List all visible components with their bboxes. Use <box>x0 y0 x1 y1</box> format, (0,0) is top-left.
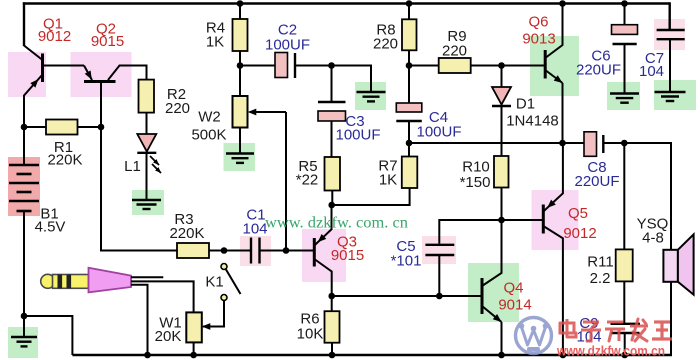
wire C4 bottom lead <box>408 121 410 143</box>
label C4 <box>429 109 448 126</box>
label C9 <box>579 315 598 332</box>
wire C9 bottom lead <box>624 333 626 355</box>
label R6 <box>300 311 319 328</box>
wire C5 bottom lead <box>438 255 440 296</box>
transistor Q1 emitter wire <box>24 75 43 129</box>
wire C2 right lead <box>295 65 332 67</box>
svg-text:Q5: Q5 <box>568 205 588 222</box>
label YSQ value 4-8 <box>642 230 664 247</box>
LED L1 <box>137 134 156 153</box>
label L1 <box>124 158 141 175</box>
label R10 value *150 <box>460 174 491 191</box>
node C5 Q4-base junction <box>436 293 443 300</box>
wire R10 top lead <box>501 143 503 156</box>
highlight box for C7 ground <box>654 80 696 110</box>
label C1 <box>246 207 265 224</box>
wire Q3 collector junction to Q4 base <box>332 295 482 297</box>
highlight box for capacitor C5 <box>422 236 456 264</box>
label Q3 value 9015 <box>331 247 364 264</box>
label R10 <box>462 159 490 176</box>
label C1 value 104 <box>242 221 267 238</box>
resistor R7 <box>402 157 418 189</box>
plug shaft <box>53 275 89 289</box>
battery B1 <box>9 165 39 211</box>
wire D1 cathode lead <box>501 106 503 143</box>
resistor R10 <box>494 156 509 188</box>
watermark green url <box>265 215 408 232</box>
switch K1 bottom contact <box>221 295 227 301</box>
svg-text:R11: R11 <box>587 254 613 271</box>
wire K1 to W1 wiper <box>202 301 224 330</box>
ground C7 <box>655 92 686 101</box>
svg-text:www.dzkfw.com.cn: www.dzkfw.com.cn <box>556 344 665 359</box>
node Q3 collector junction <box>328 293 335 300</box>
capacitor C2 plate+ <box>275 53 288 78</box>
node C6 top on rail <box>621 0 628 7</box>
wire LED cathode lead <box>146 153 148 200</box>
label Q5 <box>568 205 588 222</box>
label C7 <box>645 50 664 67</box>
wire Q6 emitter down <box>562 83 564 143</box>
watermark logo circle-W <box>516 318 552 354</box>
label C9 value 104 <box>576 329 601 346</box>
wire battery bottom lead <box>23 211 25 316</box>
label R9 value 220 <box>442 43 467 60</box>
highlight box for capacitor C1 <box>240 236 271 266</box>
plug shaft band 1 <box>58 275 63 289</box>
svg-text:9014: 9014 <box>498 297 531 314</box>
svg-text:4.5V: 4.5V <box>35 219 66 236</box>
node plug sleeve on rail <box>144 352 151 359</box>
highlight box for LED ground <box>132 190 164 215</box>
label C2 value 100UF <box>265 37 310 54</box>
label W2 <box>198 109 221 126</box>
label D1 <box>516 96 535 113</box>
label R2 value 220 <box>165 100 190 117</box>
label R7 <box>378 158 397 175</box>
wire R3 to C1 <box>209 250 251 252</box>
node R4 top on rail <box>237 0 244 7</box>
wire battery top lead <box>23 127 25 165</box>
svg-text:20K: 20K <box>155 328 182 345</box>
label R5 value *22 <box>296 172 319 189</box>
switch K1 top contact <box>221 264 227 270</box>
wire R4 bottom lead <box>239 51 241 96</box>
transistor Q2 base wire <box>100 82 102 128</box>
wire R9 left lead <box>409 65 439 67</box>
wire top-rail left drop to Q1 collector <box>23 2 25 46</box>
node Q6 collector on rail <box>559 0 566 7</box>
node R8 R9 C4 junction <box>406 62 413 69</box>
wire W2 bottom lead <box>239 128 241 154</box>
node battery top junction <box>21 124 28 131</box>
label R11 value 2.2 <box>590 270 611 287</box>
wire R1 left lead <box>24 126 46 128</box>
svg-text:220: 220 <box>442 43 467 60</box>
label R2 <box>167 86 186 103</box>
svg-text:1K: 1K <box>206 34 224 51</box>
label B1 <box>40 206 58 223</box>
transistor Q2 emitter wire <box>84 66 92 81</box>
resistor R5 <box>325 157 341 191</box>
resistor R6 <box>325 311 340 343</box>
svg-text:4-8: 4-8 <box>642 230 664 247</box>
wire R8 bottom lead <box>408 50 410 65</box>
label D1 value 1N4148 <box>506 113 559 130</box>
svg-text:www. dzkfw. com. cn: www. dzkfw. com. cn <box>265 215 408 232</box>
switch K1 arm <box>226 270 241 295</box>
svg-text:104: 104 <box>639 63 664 80</box>
wire C4 top lead <box>408 66 410 104</box>
label R3 <box>174 211 193 228</box>
watermark text dianzi-kaifa-wang <box>560 319 672 341</box>
label C7 value 104 <box>639 63 664 80</box>
transistor Q5 collector wire <box>543 226 563 355</box>
label C6 value 220UF <box>576 62 621 79</box>
label R8 <box>376 22 395 39</box>
wire Q4 emitter down <box>501 322 503 355</box>
wire R5 bottom lead <box>331 191 333 206</box>
label R5 <box>298 158 317 175</box>
label C4 value 100UF <box>416 124 461 141</box>
svg-text:9015: 9015 <box>331 247 364 264</box>
transistor Q5 base wire <box>502 219 544 221</box>
wire C6 bottom lead <box>624 44 626 94</box>
wire D1 anode lead <box>501 66 503 88</box>
resistor R11 <box>616 249 633 281</box>
wire R1 right lead <box>78 126 102 128</box>
label YSQ <box>637 216 669 233</box>
node R4 W2 C2 junction <box>237 62 244 69</box>
wire R8 top lead <box>408 4 410 20</box>
svg-text:220: 220 <box>373 36 398 53</box>
svg-text:500K: 500K <box>191 127 226 144</box>
highlight box for capacitor C7 <box>654 19 685 50</box>
transistor Q6 bar <box>544 50 547 79</box>
wire C4 junction to Q6 emitter node <box>409 142 563 144</box>
capacitor C7 <box>657 30 685 39</box>
label Q5 value 9012 <box>563 225 596 242</box>
transistor Q4 collector wire <box>482 220 502 286</box>
svg-text:220UF: 220UF <box>574 173 619 190</box>
diode D1 <box>492 87 511 106</box>
transistor Q2 collector wire <box>108 66 147 81</box>
svg-text:100UF: 100UF <box>265 37 310 54</box>
label C5 <box>396 238 415 255</box>
wire R10 bottom lead <box>501 188 503 221</box>
highlight box for Q2 <box>71 52 132 97</box>
wire R6 bottom lead <box>331 343 333 355</box>
node C4 R7 wire junction <box>406 140 413 147</box>
capacitor C4 plate- <box>396 120 422 122</box>
label R9 <box>447 28 466 45</box>
label Q4 <box>503 280 523 297</box>
label K1 <box>205 274 223 291</box>
label Q6 value 9013 <box>522 31 555 48</box>
resistor R3 <box>177 243 209 258</box>
svg-text:104: 104 <box>242 221 267 238</box>
plug sleeve cable to ground rail <box>131 285 148 355</box>
wire R6 top lead <box>331 296 333 311</box>
ground W2 <box>226 154 254 163</box>
wire C7 top lead <box>669 2 671 30</box>
transistor Q5 bar <box>542 205 545 234</box>
highlight box for battery ground <box>8 327 38 358</box>
label Q1 value 9012 <box>38 28 71 45</box>
resistor R1 <box>46 120 78 135</box>
transistor Q4 emitter wire <box>482 306 502 322</box>
label Q2 <box>96 21 116 38</box>
wire C2 left lead <box>240 65 275 67</box>
label C3 value 100UF <box>335 127 380 144</box>
highlight box for Q5 <box>532 190 579 250</box>
potentiometer W2 <box>233 96 248 128</box>
resistor R4 <box>233 19 248 51</box>
transistor Q1 bar <box>41 54 44 83</box>
node W1 on rail <box>190 352 197 359</box>
svg-text:9012: 9012 <box>563 225 596 242</box>
svg-text:*22: *22 <box>296 172 319 189</box>
wire R7 top lead <box>408 143 410 157</box>
transistor Q2 bar <box>84 80 116 83</box>
resistor R9 <box>439 58 471 73</box>
svg-text:220: 220 <box>165 100 190 117</box>
label W1 value 20K <box>155 328 182 345</box>
wire Q3-emitter junction to R7 <box>332 188 410 205</box>
transistor Q6 emitter wire <box>545 70 562 83</box>
wire R9 right lead <box>471 65 546 67</box>
svg-text:220K: 220K <box>169 225 204 242</box>
node R3 C1 K1 junction <box>221 247 228 254</box>
label C6 <box>591 48 610 65</box>
wire R4 top lead <box>239 4 241 20</box>
capacitor C8 plate+ <box>584 132 597 157</box>
svg-text:2.2: 2.2 <box>590 270 611 287</box>
node R9 D1 Q6-base junction <box>498 62 505 69</box>
wire C3 to R5 <box>331 121 333 157</box>
capacitor C4 plate+ <box>396 103 422 112</box>
plug tip <box>41 274 55 288</box>
plug shaft band 2 <box>67 275 72 289</box>
transistor Q3 collector wire <box>314 259 331 296</box>
ground battery <box>11 316 37 346</box>
transistor Q4 bar <box>481 278 484 314</box>
highlight box for mid ground <box>355 82 386 110</box>
wire C5 top lead <box>439 220 501 244</box>
node Q4 emitter on rail <box>498 352 505 359</box>
capacitor C6 plate- <box>613 43 637 45</box>
svg-text:10K: 10K <box>297 326 324 343</box>
node R5 Q3-emitter R7 junction <box>328 202 335 209</box>
wire Q2 base to R3 <box>101 127 177 251</box>
wire C1 to Q3 base <box>260 250 315 252</box>
LED L1 light arrows <box>150 156 161 173</box>
capacitor C8 plate- <box>602 135 604 153</box>
svg-text:1K: 1K <box>379 172 397 189</box>
speaker YSQ horn <box>678 234 694 294</box>
wire C3 top lead <box>331 66 333 103</box>
transistor Q6 collector wire <box>545 4 562 59</box>
node C1 W2-wiper Q3-base junction <box>283 247 290 254</box>
plug tip cable (floating) <box>131 276 163 278</box>
wire ground rail link <box>24 316 72 355</box>
transistor Q1 collector wire <box>24 46 43 61</box>
svg-text:Q4: Q4 <box>503 280 523 297</box>
node C9 on rail <box>621 352 628 359</box>
transistor Q1 base wire <box>43 65 85 67</box>
speaker YSQ body <box>663 250 678 282</box>
label R3 value 220K <box>169 225 204 242</box>
capacitor C1 <box>251 238 260 264</box>
label C8 value 220UF <box>574 173 619 190</box>
wire C6 top lead <box>624 4 626 25</box>
node Q5 collector on rail <box>560 352 567 359</box>
wire R11 bottom lead <box>623 281 625 323</box>
label Q6 <box>528 14 548 31</box>
capacitor C5 <box>425 245 454 255</box>
label W1 <box>159 315 182 332</box>
capacitor C3 plate- <box>318 101 346 103</box>
wire R11 top lead <box>623 143 625 249</box>
highlight box for Q1 <box>8 52 46 97</box>
node R10 Q5-base C5 junction <box>498 217 505 224</box>
wire speaker bottom lead <box>670 282 672 355</box>
node battery ground junction <box>21 313 28 320</box>
highlight box for Q4 <box>468 263 519 322</box>
label R8 value 220 <box>373 36 398 53</box>
bottom ground rail <box>72 354 672 356</box>
svg-text:R10: R10 <box>462 159 490 176</box>
label C8 <box>587 159 606 176</box>
wire C2 to mid ground <box>332 66 372 93</box>
node C2 C3 junction <box>328 62 335 69</box>
svg-text:220UF: 220UF <box>576 62 621 79</box>
wire R2 bottom lead <box>146 113 148 134</box>
label C3 <box>345 113 364 130</box>
label Q1 <box>43 16 63 33</box>
highlight box for Q3 <box>302 229 346 282</box>
svg-text:L1: L1 <box>124 158 141 175</box>
svg-text:9015: 9015 <box>91 33 124 50</box>
label C5 value *101 <box>391 253 422 270</box>
ground mid <box>357 92 386 101</box>
label B1 value 4.5V <box>35 219 66 236</box>
svg-text:9012: 9012 <box>38 28 71 45</box>
svg-text:100UF: 100UF <box>416 124 461 141</box>
transistor Q5 emitter wire <box>543 143 563 212</box>
wire C8 right lead <box>603 142 671 144</box>
highlight box for C6 ground <box>607 82 640 110</box>
potentiometer W1 <box>186 312 202 342</box>
node R8 top on rail <box>406 0 413 7</box>
wire C8 left lead <box>563 142 585 144</box>
node C8 R11 junction <box>621 140 628 147</box>
capacitor C3 plate+ <box>318 111 346 121</box>
transistor Q3 emitter wire <box>314 205 331 246</box>
ground C6 <box>610 94 639 103</box>
label Q4 value 9014 <box>498 297 531 314</box>
capacitor C9 <box>611 324 641 333</box>
label R1 value 220K <box>47 152 82 169</box>
ground LED <box>132 200 161 209</box>
wire speaker top lead <box>624 143 671 250</box>
node output junction <box>559 140 566 147</box>
top supply rail <box>23 2 670 4</box>
label R7 value 1K <box>379 172 397 189</box>
highlight box for W2 ground <box>224 143 256 171</box>
svg-text:*101: *101 <box>391 253 422 270</box>
svg-text:220K: 220K <box>47 152 82 169</box>
highlight box for Q6 <box>530 36 579 96</box>
label W2 value 500K <box>191 127 226 144</box>
svg-text:100UF: 100UF <box>335 127 380 144</box>
capacitor C2 plate- <box>294 53 296 78</box>
label C2 <box>278 22 297 39</box>
svg-text:9013: 9013 <box>522 31 555 48</box>
plug body <box>89 268 132 293</box>
svg-text:*150: *150 <box>460 174 491 191</box>
wiper of W2 <box>248 109 286 116</box>
svg-text:D1: D1 <box>516 96 535 113</box>
watermark red url <box>556 344 665 359</box>
svg-text:K1: K1 <box>205 274 223 291</box>
svg-text:Q6: Q6 <box>528 14 548 31</box>
label R6 value 10K <box>297 326 324 343</box>
node R6 on rail <box>329 352 336 359</box>
label Q3 <box>337 234 357 251</box>
wire W1 bottom lead <box>193 342 195 355</box>
highlight box for battery B1 <box>8 157 40 216</box>
label R11 <box>587 254 613 271</box>
node Q2 base / R1 junction <box>98 124 105 131</box>
svg-text:1N4148: 1N4148 <box>506 113 559 130</box>
capacitor C6 plate+ <box>612 25 638 35</box>
svg-text:W2: W2 <box>198 109 221 126</box>
label R1 <box>54 139 73 156</box>
label R4 value 1K <box>206 34 224 51</box>
wire W2 wiper down to Q3 base <box>285 112 287 251</box>
transistor Q3 bar <box>313 238 316 267</box>
label R4 <box>206 20 225 37</box>
resistor R2 <box>139 80 155 113</box>
wire C7 bottom lead <box>669 39 671 92</box>
resistor R8 <box>402 19 417 50</box>
plug signal cable to W1 <box>131 281 194 312</box>
label Q2 value 9015 <box>91 33 124 50</box>
